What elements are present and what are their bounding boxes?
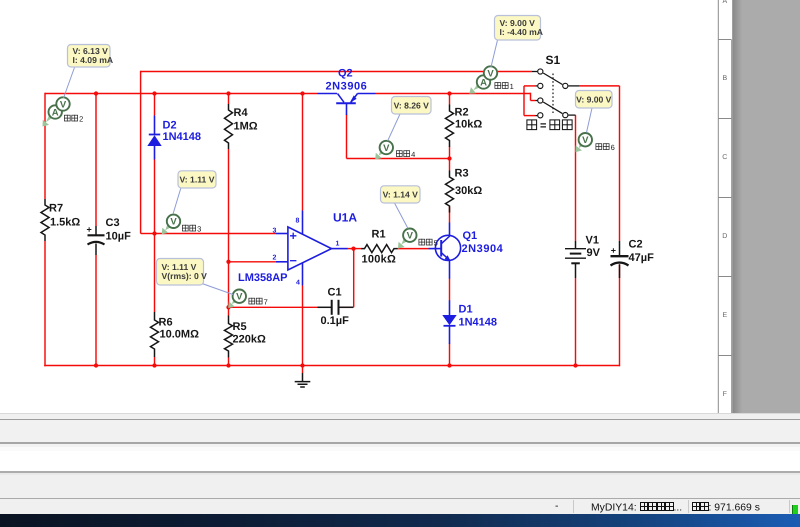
R2 branch x=449.5 (449, 94, 451, 105)
V1 bottom to rail (575, 278, 577, 366)
svg-text:10kΩ: 10kΩ (455, 119, 482, 131)
switch out top to C2 branch (579, 85, 620, 87)
svg-text:R5: R5 (233, 321, 247, 333)
svg-text:4: 4 (296, 280, 300, 287)
probe 5 (402, 235, 411, 244)
svg-text:4: 4 (411, 150, 415, 159)
top rail y=93.5 (45, 93, 318, 95)
svg-text:U1A: U1A (333, 211, 357, 225)
Q2 base wire down to probe4 wire (346, 115, 348, 159)
svg-text:10.0MΩ: 10.0MΩ (160, 329, 200, 341)
svg-text:7: 7 (264, 298, 268, 307)
op-amp U1A LM358AP (288, 227, 332, 270)
switch key label 键 = 空格 (527, 120, 538, 131)
svg-text:=: = (540, 120, 546, 132)
svg-text:1: 1 (336, 241, 340, 248)
svg-text:0.1µF: 0.1µF (321, 315, 350, 327)
resistor R1 (361, 245, 398, 253)
svg-text:1MΩ: 1MΩ (234, 121, 258, 133)
svg-text:A: A (722, 0, 727, 5)
resistor R4 (225, 104, 233, 149)
probe 6 value box (587, 108, 593, 133)
svg-text:D2: D2 (163, 120, 177, 132)
svg-text:Q1: Q1 (463, 230, 478, 242)
svg-text:I: -4.40 mA: I: -4.40 mA (500, 27, 543, 37)
svg-text:2N3906: 2N3906 (326, 81, 368, 93)
svg-text:V: V (383, 143, 390, 154)
resistor R5 (225, 316, 233, 358)
C2 bottom to rail (619, 265, 621, 367)
svg-text:F: F (723, 391, 727, 398)
probe 6 (579, 140, 586, 148)
switch pole2 feed (530, 93, 532, 101)
inner loop x=140.6 top rail to probe3 node (140, 71, 142, 234)
svg-text:Q2: Q2 (338, 68, 353, 80)
resistor R3 (446, 171, 454, 213)
svg-text:10µF: 10µF (106, 231, 132, 243)
resistor R7 (41, 199, 49, 241)
simulation activity green indicator (792, 505, 798, 515)
bottom docked panels (0, 412, 800, 415)
probe 1 value box (491, 40, 498, 67)
svg-text:B: B (722, 75, 727, 82)
probe 4 value box (388, 114, 400, 141)
resistor R2 (446, 105, 454, 148)
svg-text:V(rms): 0 V: V(rms): 0 V (162, 271, 208, 281)
svg-text:V: V (487, 68, 494, 79)
D2 / R6 branch x=154.5 (154, 94, 156, 116)
svg-text:I: 4.09 mA: I: 4.09 mA (73, 55, 114, 65)
left vertical wire x=45 (44, 93, 46, 199)
svg-text:3: 3 (273, 228, 277, 235)
output node / R1 wire y=248.6 (347, 248, 361, 250)
svg-text:C3: C3 (106, 217, 120, 229)
svg-text:2: 2 (273, 255, 277, 262)
svg-text:1N4148: 1N4148 (163, 131, 202, 143)
svg-text:R1: R1 (372, 229, 386, 241)
C3 branch x=96 (95, 94, 97, 227)
svg-text:V1: V1 (586, 235, 599, 247)
svg-text:R7: R7 (49, 203, 63, 215)
probe 2 (A+V) on left wire (46, 110, 57, 122)
ground (302, 366, 304, 374)
probe 3 (165, 221, 173, 230)
svg-text:V: V (236, 292, 243, 303)
svg-text:6: 6 (611, 143, 615, 152)
svg-text:V: V (170, 217, 177, 228)
probe 4 (379, 147, 387, 155)
svg-text:1N4148: 1N4148 (459, 317, 498, 329)
probe 3 value box (173, 188, 181, 215)
diode D1 1N4148 (449, 300, 451, 315)
svg-text:1: 1 (510, 82, 514, 91)
R4/R5 branch x=228.5 (228, 94, 230, 105)
svg-text:30kΩ: 30kΩ (455, 185, 482, 197)
diode D2 1N4148 (154, 116, 156, 135)
svg-text:D: D (722, 233, 727, 240)
transistor Q2 2N3906 (PNP, horizontal) (318, 93, 338, 95)
sheet border column (717, 0, 719, 414)
svg-text:47µF: 47µF (629, 252, 655, 264)
probe 7 (232, 296, 240, 304)
svg-text:+: + (611, 246, 616, 256)
probe 2 value box (64, 66, 76, 98)
svg-text:5: 5 (434, 239, 438, 248)
svg-text:+: + (87, 225, 92, 235)
svg-text:R6: R6 (159, 317, 173, 329)
svg-text:R4: R4 (234, 107, 249, 119)
svg-text:LM358AP: LM358AP (238, 272, 288, 284)
capacitor C1 (318, 306, 332, 308)
feedback wire to C1 (353, 249, 355, 308)
resistor R6 (151, 312, 159, 357)
svg-text:9V: 9V (587, 247, 601, 259)
svg-text:V: 8.26 V: V: 8.26 V (394, 100, 430, 110)
windows taskbar (0, 514, 800, 527)
svg-text:8: 8 (296, 218, 300, 225)
svg-text:V: V (582, 135, 589, 146)
capacitor C2 (polarized) (619, 241, 621, 255)
Q1 emitter to D1 (449, 279, 451, 301)
probe 5 value box (395, 203, 409, 229)
status bar (0, 499, 800, 514)
svg-text:R2: R2 (455, 107, 469, 119)
svg-text:V: 9.00 V: V: 9.00 V (576, 94, 612, 104)
svg-text:100kΩ: 100kΩ (362, 254, 397, 266)
battery V1 9V (575, 241, 577, 248)
op-amp power branch x=302.5 (302, 94, 304, 211)
capacitor C3 (polarized) (95, 226, 97, 235)
svg-text:C2: C2 (629, 239, 643, 251)
svg-text:1.5kΩ: 1.5kΩ (50, 217, 80, 229)
svg-text:V: 1.14 V: V: 1.14 V (383, 190, 419, 200)
R3 to Q1 (449, 207, 451, 223)
op-amp pin3 wire y=233.5 (155, 233, 277, 235)
switch left tie loop (524, 85, 535, 87)
bottom rail y=365.5 (44, 365, 619, 367)
svg-text:D1: D1 (459, 304, 473, 316)
switch out bottom to V1 branch (575, 115, 577, 241)
svg-text:V: V (60, 99, 67, 110)
svg-text:3: 3 (197, 225, 201, 234)
probe 7 value box (202, 284, 233, 295)
svg-text:2N3904: 2N3904 (462, 243, 504, 255)
svg-text:220kΩ: 220kΩ (233, 334, 266, 346)
svg-text:C: C (722, 154, 727, 161)
probe 1 (A+V) near switch (473, 80, 484, 90)
D1 to bottom rail (449, 344, 451, 366)
op-amp pin2 wire y=261.8 (229, 261, 277, 263)
svg-text:V: V (407, 231, 414, 242)
transistor Q1 2N3904 (NPN) (429, 248, 442, 250)
svg-text:2: 2 (79, 115, 83, 124)
top inner rail y=71.5 (141, 71, 532, 73)
svg-text:R3: R3 (455, 168, 469, 180)
junction dots (94, 91, 98, 95)
svg-text:S1: S1 (546, 53, 561, 67)
svg-text:E: E (722, 312, 727, 319)
svg-text:V: 1.11 V: V: 1.11 V (180, 175, 215, 185)
svg-text:C1: C1 (328, 287, 342, 299)
